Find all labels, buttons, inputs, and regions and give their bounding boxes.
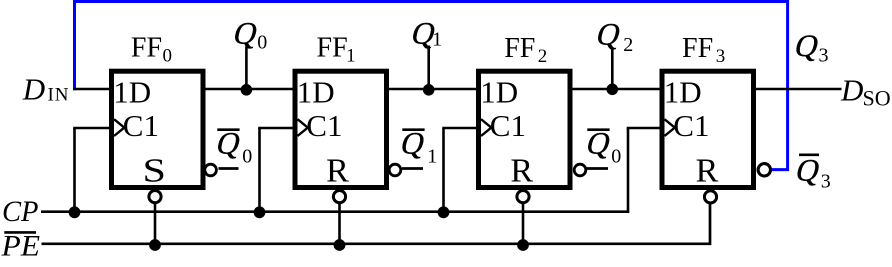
- svg-text:FF: FF: [131, 33, 162, 64]
- svg-text:R: R: [326, 153, 349, 190]
- svg-text:3: 3: [819, 45, 829, 67]
- svg-text:FF: FF: [682, 33, 713, 64]
- svg-text:IN: IN: [48, 85, 69, 106]
- svg-text:1: 1: [432, 29, 442, 51]
- svg-text:CP: CP: [2, 196, 39, 228]
- svg-text:0: 0: [257, 32, 267, 54]
- svg-text:0: 0: [242, 146, 252, 168]
- svg-text:3: 3: [716, 46, 726, 67]
- svg-text:1D: 1D: [664, 75, 702, 110]
- svg-text:FF: FF: [504, 33, 535, 64]
- svg-text:R: R: [510, 153, 533, 190]
- svg-text:1D: 1D: [297, 75, 335, 110]
- svg-text:C1: C1: [490, 108, 526, 143]
- svg-text:0: 0: [163, 46, 173, 67]
- svg-text:R: R: [696, 153, 719, 190]
- svg-text:1: 1: [346, 46, 356, 67]
- svg-text:3: 3: [821, 171, 831, 193]
- svg-text:FF: FF: [317, 33, 348, 64]
- svg-text:1D: 1D: [113, 75, 151, 110]
- svg-text:PE: PE: [0, 231, 40, 263]
- svg-text:0: 0: [611, 146, 621, 168]
- svg-text:2: 2: [623, 34, 633, 56]
- svg-text:D: D: [840, 73, 863, 108]
- svg-text:SO: SO: [863, 85, 891, 110]
- svg-text:2: 2: [538, 46, 548, 67]
- svg-text:1D: 1D: [480, 75, 518, 110]
- svg-text:C1: C1: [673, 108, 709, 143]
- svg-text:S: S: [143, 153, 167, 190]
- svg-text:C1: C1: [306, 108, 342, 143]
- svg-text:1: 1: [427, 146, 437, 168]
- svg-text:C1: C1: [123, 108, 159, 143]
- svg-text:D: D: [22, 72, 45, 107]
